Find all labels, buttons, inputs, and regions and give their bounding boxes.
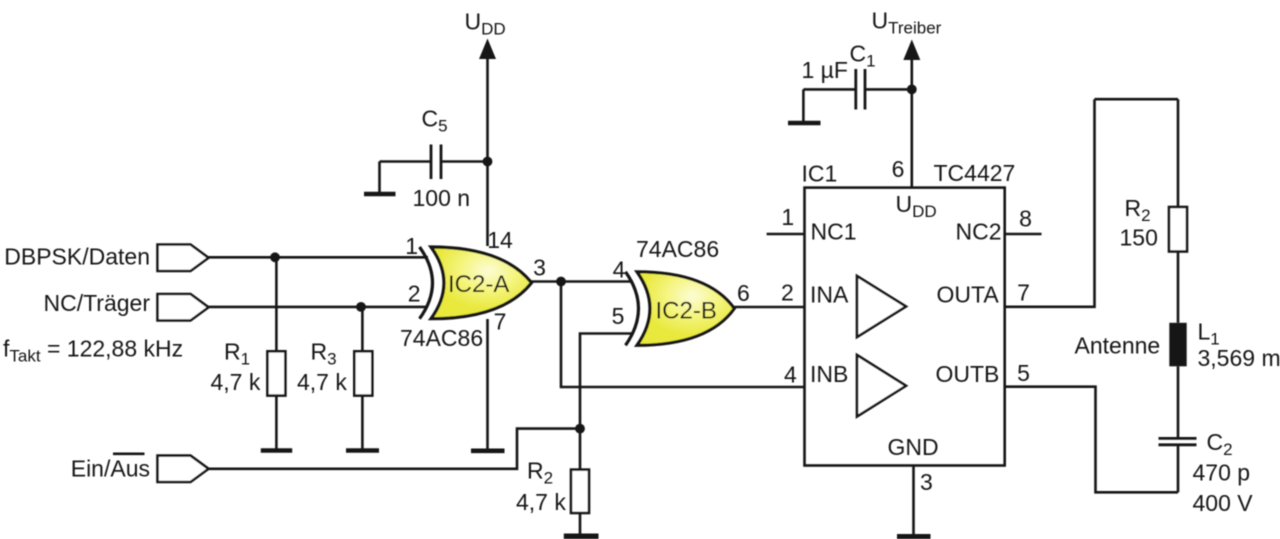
svg-text:4: 4 <box>613 256 626 282</box>
driver triangle B <box>857 355 906 417</box>
wire from node down to INB <box>561 282 805 388</box>
ground at C1 <box>788 89 821 123</box>
wire Ein/Aus net <box>209 429 581 469</box>
svg-text:UTreiber: UTreiber <box>872 8 942 38</box>
svg-text:GND: GND <box>888 434 939 460</box>
wire R1 top <box>275 257 278 351</box>
overline over Aus <box>113 452 145 455</box>
power symbol U_Treiber arrow <box>903 40 920 188</box>
svg-text:INA: INA <box>810 282 849 308</box>
inductor L1 <box>1169 323 1186 367</box>
pin 8 stub <box>1005 233 1042 236</box>
wire R2 bottom <box>579 513 582 535</box>
svg-text:74AC86: 74AC86 <box>400 325 483 351</box>
svg-text:1: 1 <box>405 233 418 259</box>
ground under R1 <box>261 448 292 453</box>
resistor R2 4,7k <box>571 470 589 513</box>
svg-text:4,7 k: 4,7 k <box>211 369 261 395</box>
svg-text:150: 150 <box>1120 225 1158 251</box>
svg-text:R1: R1 <box>224 339 250 369</box>
resistor R1 <box>267 351 285 395</box>
resistor R2 150 <box>1169 207 1187 252</box>
power symbol U_DD arrow top <box>479 39 496 247</box>
node on pin1 wire <box>270 252 280 262</box>
svg-text:3: 3 <box>533 254 546 280</box>
resistor R3 <box>354 351 372 395</box>
node at R2 top junction <box>575 424 585 434</box>
svg-text:14: 14 <box>487 227 513 253</box>
capacitor C5 <box>431 145 441 180</box>
svg-text:7: 7 <box>494 308 507 334</box>
wire IC2-A output to IC2-B pin4 <box>532 280 634 283</box>
svg-text:3: 3 <box>920 469 933 495</box>
svg-text:UDD: UDD <box>896 191 937 221</box>
svg-text:2: 2 <box>781 280 794 306</box>
svg-text:Antenne: Antenne <box>1075 333 1161 359</box>
ground at C5 <box>364 162 396 195</box>
driver triangle A <box>857 276 906 337</box>
wire C5 net to U_DD <box>380 160 488 163</box>
capacitor C1 <box>856 69 865 110</box>
svg-text:4,7 k: 4,7 k <box>297 369 347 395</box>
svg-text:R2: R2 <box>1125 195 1151 225</box>
node at C1/U_Treiber junction <box>907 85 917 95</box>
wire R3 top <box>361 307 364 351</box>
label Ein/Aus with overline <box>71 456 150 482</box>
svg-text:L1: L1 <box>1198 319 1220 349</box>
svg-text:R3: R3 <box>311 339 337 369</box>
pin 1 stub <box>767 233 805 236</box>
svg-text:4,7 k: 4,7 k <box>516 489 566 515</box>
svg-text:7: 7 <box>1017 280 1030 306</box>
svg-text:400 V: 400 V <box>1193 490 1254 516</box>
wire C1 net <box>803 88 911 91</box>
svg-text:3,569 m: 3,569 m <box>1198 345 1280 371</box>
svg-text:1 µF: 1 µF <box>802 57 848 83</box>
wire pin3 to ground <box>912 466 915 535</box>
svg-text:OUTB: OUTB <box>936 361 1000 387</box>
svg-text:INB: INB <box>810 361 848 387</box>
svg-text:OUTA: OUTA <box>937 282 1000 308</box>
svg-text:6: 6 <box>892 156 905 182</box>
ground under R2 <box>564 534 599 539</box>
svg-text:74AC86: 74AC86 <box>636 236 719 262</box>
IC U1 TC4427 body <box>805 188 1005 466</box>
svg-text:100 n: 100 n <box>413 185 471 211</box>
svg-text:NC2: NC2 <box>956 218 1002 244</box>
svg-text:5: 5 <box>1017 360 1030 386</box>
svg-text:C5: C5 <box>422 106 448 136</box>
wire pin2 net <box>209 306 429 309</box>
svg-text:6: 6 <box>737 280 750 306</box>
svg-text:1: 1 <box>781 204 794 230</box>
wire right column top <box>1177 99 1180 207</box>
svg-text:R2: R2 <box>527 458 553 488</box>
node at IC2-A output <box>556 277 566 287</box>
input connector Ein/Aus <box>158 456 209 482</box>
input connector DBPSK/Daten <box>158 245 209 272</box>
capacitor C2 <box>1159 438 1197 444</box>
svg-text:TC4427: TC4427 <box>934 160 1016 186</box>
svg-text:UDD: UDD <box>465 9 506 39</box>
svg-text:2: 2 <box>408 281 421 307</box>
xor gate IC2-A <box>420 247 532 319</box>
wire OUTB to right column bottom <box>1005 387 1178 493</box>
wire pin1 net <box>209 256 429 259</box>
svg-text:4: 4 <box>784 362 797 388</box>
wire R3 bottom <box>361 396 364 449</box>
svg-text:C1: C1 <box>850 41 876 71</box>
ground under pin 7 <box>471 448 505 453</box>
svg-text:8: 8 <box>1019 205 1032 231</box>
node at C5/U_DD junction <box>483 157 493 167</box>
wire pin7 to ground <box>486 319 489 449</box>
svg-text:470 p: 470 p <box>1193 460 1251 486</box>
wire pin5 net <box>580 334 633 470</box>
svg-text:IC2-A: IC2-A <box>448 271 509 298</box>
svg-text:Ein/Aus: Ein/Aus <box>71 456 150 482</box>
svg-text:fTakt = 122,88 kHz: fTakt = 122,88 kHz <box>3 336 183 366</box>
svg-text:IC1: IC1 <box>802 160 838 186</box>
svg-text:DBPSK/Daten: DBPSK/Daten <box>4 244 150 270</box>
svg-text:C2: C2 <box>1207 429 1233 459</box>
svg-text:NC1: NC1 <box>811 218 857 244</box>
ground under R3 <box>346 448 379 453</box>
wire OUTA to right column <box>1005 99 1095 307</box>
wire L1 to C2 <box>1177 366 1180 437</box>
wire R1 bottom <box>275 396 278 449</box>
svg-text:5: 5 <box>612 303 625 329</box>
wire R2 to L1 <box>1177 252 1180 323</box>
svg-text:NC/Träger: NC/Träger <box>44 290 151 316</box>
svg-text:IC2-B: IC2-B <box>656 298 717 325</box>
xor gate IC2-B <box>626 272 735 346</box>
wire top of right loop <box>1095 98 1179 101</box>
wire IC2-B output to INA <box>734 306 804 309</box>
wire C2 bottom <box>1177 446 1180 492</box>
input connector NC/Traeger <box>158 294 209 321</box>
ground under pin 3 <box>897 534 931 539</box>
node on pin2 wire <box>356 302 366 312</box>
